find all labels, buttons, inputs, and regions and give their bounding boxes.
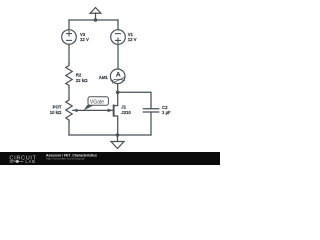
svg-text:POT: POT [53, 104, 62, 109]
svg-text:12 V: 12 V [128, 37, 137, 42]
svg-text:LAB: LAB [25, 159, 35, 164]
svg-text:V3: V3 [80, 32, 86, 37]
svg-text:AM1: AM1 [99, 75, 109, 80]
svg-text:22 kΩ: 22 kΩ [76, 78, 88, 83]
svg-text:J1: J1 [121, 105, 126, 110]
svg-text:A: A [116, 71, 121, 78]
svg-text:1 µF: 1 µF [162, 110, 171, 115]
svg-text:10 kΩ: 10 kΩ [50, 110, 62, 115]
svg-text:VGate: VGate [90, 99, 104, 105]
svg-text:http://circuitlab.com/c/bupqb: http://circuitlab.com/c/bupqb [46, 157, 85, 161]
svg-text:12 V: 12 V [80, 37, 89, 42]
svg-text:V1: V1 [128, 32, 134, 37]
svg-text:J310: J310 [121, 110, 131, 115]
svg-text:R2: R2 [76, 72, 82, 77]
